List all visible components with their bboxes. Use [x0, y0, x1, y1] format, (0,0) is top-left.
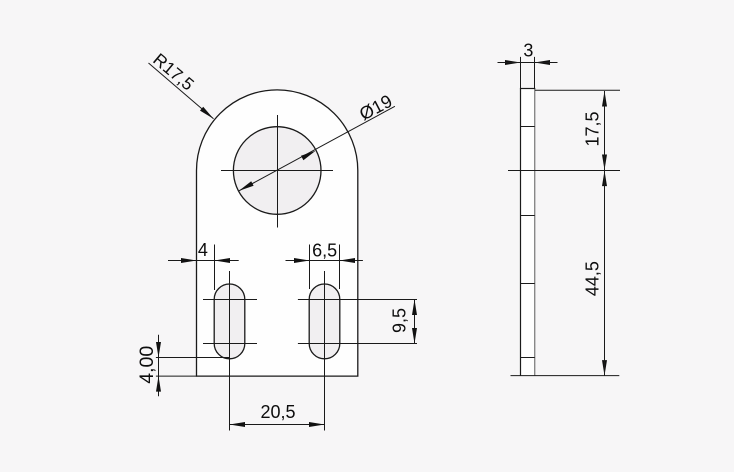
- svg-text:9,5: 9,5: [389, 308, 409, 333]
- svg-text:3: 3: [523, 41, 533, 61]
- svg-text:20,5: 20,5: [260, 402, 295, 422]
- svg-text:44,5: 44,5: [583, 261, 603, 296]
- svg-text:4: 4: [198, 240, 208, 260]
- svg-text:17,5: 17,5: [583, 111, 603, 146]
- svg-text:6,5: 6,5: [312, 240, 337, 260]
- svg-text:4,00: 4,00: [136, 346, 158, 384]
